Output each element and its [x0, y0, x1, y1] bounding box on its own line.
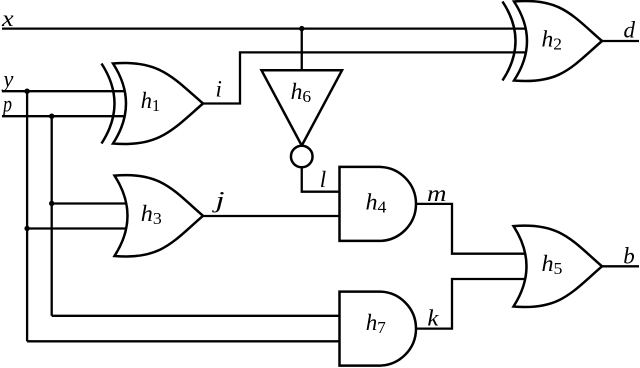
wire p branch vertical	[51, 116, 53, 316]
junction node y to h3	[24, 226, 29, 231]
wire y input	[2, 90, 126, 92]
inverter h6 bubble	[291, 146, 313, 168]
wire x input	[2, 27, 527, 29]
wire y branch to h7 lower input	[27, 340, 339, 342]
svg-text:i: i	[216, 76, 222, 101]
svg-text:j: j	[211, 188, 224, 213]
junction node on p wire	[49, 114, 54, 119]
wire y branch vertical	[26, 91, 28, 341]
junction node p to h3	[49, 201, 54, 206]
wire p branch to h3 upper input	[52, 202, 127, 204]
svg-text:p: p	[1, 91, 12, 116]
wire x node to inverter h6	[301, 29, 303, 71]
xor gate h2 extra arc	[503, 2, 516, 81]
junction node on x wire	[299, 26, 304, 31]
wire m from h4 to h5 upper input	[416, 204, 527, 254]
svg-text:l: l	[320, 167, 326, 192]
inverter h6 triangle	[262, 70, 343, 145]
svg-text:d: d	[624, 18, 636, 43]
svg-text:b: b	[623, 243, 635, 268]
svg-text:m: m	[427, 181, 447, 206]
xor gate h1 extra arc	[102, 64, 115, 144]
svg-text:x: x	[1, 6, 15, 31]
and gate h7	[340, 292, 417, 366]
and gate h4	[340, 167, 417, 241]
xor gate h1 body	[113, 63, 203, 144]
wire j from h3 to h4	[203, 215, 340, 217]
wire y branch to h3 lower input	[27, 227, 127, 229]
xor gate h2 body	[514, 1, 602, 81]
wire k from h7 to h5 lower input	[416, 279, 527, 329]
svg-text:k: k	[427, 306, 439, 331]
junction node on y wire	[24, 89, 29, 94]
or gate h5	[514, 226, 603, 308]
or gate h3	[115, 175, 204, 257]
svg-text:y: y	[1, 66, 14, 91]
wire p branch to h7 upper input	[52, 315, 340, 317]
wire d output	[602, 40, 639, 42]
wire l from h6 bubble to h4	[302, 167, 340, 191]
wire i from h1 output up to h2 input	[203, 52, 527, 103]
wire b output	[602, 265, 639, 267]
wire p input	[2, 115, 126, 117]
